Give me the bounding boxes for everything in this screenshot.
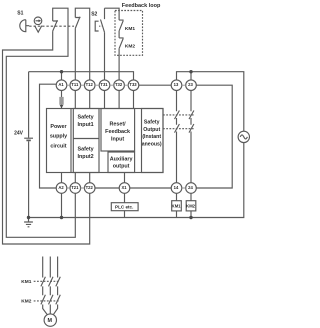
wire: S2 to feedback loop [105,8,120,20]
junction dot ground [27,216,30,219]
label auxiliary output [110,157,133,170]
wire: feedback loop to T32 [118,48,120,80]
contactor contacts KM2 (3-phase) [41,295,60,315]
wire: S2 to T31 [104,32,106,80]
wire: X1 to PLC [124,193,126,203]
terminal 23 [186,80,197,91]
svg-text:T22: T22 [86,185,94,190]
svg-text:Feedback: Feedback [105,129,130,135]
svg-text:KM2: KM2 [186,204,196,209]
wire between KM1 and KM2 contacts [118,31,120,38]
svg-text:T12: T12 [86,82,94,87]
svg-text:Safety: Safety [78,115,94,121]
stub T12 to box [89,90,91,108]
terminal A1 [56,80,67,91]
stub box to A2 [61,173,63,184]
svg-text:24: 24 [188,185,193,190]
battery 24V [24,138,33,140]
ground [24,218,33,227]
contactor contacts KM1 (3-phase) [41,277,60,295]
label safety input2 [78,146,94,160]
battery rail lower [28,141,30,217]
dashed link S2 [99,25,101,27]
junction dot KM2 rail [189,216,192,219]
wire: 23 stub to bus [190,72,192,81]
terminal T12 [84,80,95,91]
svg-text:output: output [113,163,130,169]
label safety output [142,120,162,148]
svg-text:X1: X1 [121,185,127,190]
stub T32 to box [118,90,120,108]
terminal A2 [56,183,67,194]
PLC box [111,203,138,211]
S2 contact [101,8,105,32]
label reset/feedback input [105,122,130,143]
svg-text:T21: T21 [71,185,79,190]
direct opening indicator (circle with arrow) [34,17,42,25]
dashed link KM1 [34,280,60,282]
battery rail upper [28,72,30,138]
stub T31 to box [104,90,106,108]
wire: PLC to rail [124,211,126,218]
svg-text:KM2: KM2 [21,299,31,305]
label safety input1 [78,115,94,129]
auxiliary output block [108,152,135,173]
S1 contact channel B (T11-T12) [75,17,80,29]
svg-text:S1: S1 [17,10,23,16]
wire: coil KM2 to rail [190,211,192,218]
wire: contact B arm to T11 [74,28,76,80]
stub T11 to box [74,90,76,108]
wire: 14 to coil KM1 [176,193,178,201]
terminal T32 [114,80,125,91]
svg-text:Input2: Input2 [78,154,94,160]
pushbutton S1 mushroom head [20,20,29,32]
terminal X1 [119,183,130,194]
terminal T21 [70,183,81,194]
svg-text:KM2: KM2 [125,43,135,49]
contact KM2 (NC) [119,38,124,48]
stub box to T22 [89,173,91,184]
svg-text:Output: Output [143,127,160,133]
terminal T33 [128,80,139,91]
wire: T33 to 13 [139,84,172,86]
terminal T11 [70,80,81,91]
svg-text:aneous): aneous) [142,142,162,148]
bottom 0V rail to AC source [29,143,244,218]
terminal T22 [84,183,95,194]
svg-text:Power: Power [50,124,67,130]
contact KM1 (NC) [119,20,124,31]
terminal 24 [186,183,197,194]
stub T33 to box [133,90,135,108]
svg-text:KM1: KM1 [125,26,135,32]
svg-text:(Instant: (Instant [142,134,161,140]
svg-text:Feedback loop: Feedback loop [122,3,161,9]
svg-text:Safety: Safety [78,146,94,152]
24V supply bus [29,72,134,81]
S1 contact channel A (T21-T22) [53,20,58,31]
contactor coil KM2 [186,201,196,211]
power supply partition [70,109,72,173]
reset/feedback input block [101,109,135,152]
svg-text:Auxiliary: Auxiliary [110,157,133,163]
svg-text:T32: T32 [115,82,123,87]
svg-text:KM1: KM1 [172,204,182,209]
contactor coil KM1 [172,201,182,211]
safety input block [73,109,99,173]
svg-text:PLC etc.: PLC etc. [115,204,133,209]
svg-text:T11: T11 [71,82,79,87]
svg-text:24V: 24V [14,131,24,137]
svg-text:Reset/: Reset/ [110,122,127,128]
terminal 14 [171,183,182,194]
wire: X1 to 14 [130,187,172,189]
feedback loop dashed box [115,11,143,56]
wire: T22 to X1 [95,187,120,189]
wire: contact A arm via left rail A to T22 [3,31,90,244]
pushbutton S2 actuator [95,21,98,31]
safety output contact 23-24 [189,90,194,183]
svg-text:supply: supply [50,134,67,140]
wire: contact B top via loop to T12 [75,8,89,80]
svg-text:KM1: KM1 [21,279,31,285]
stub box to X1 [124,173,126,184]
main unit box [47,109,164,173]
motor phase lines [43,257,58,278]
junction dot 23 bus [189,70,192,73]
label power supply circuit [50,124,68,150]
dashed mechanical links of safety outputs [163,115,194,129]
svg-text:Safety: Safety [144,120,160,126]
junction dot A1 bus [60,70,63,73]
svg-text:circuit: circuit [50,143,66,149]
wire: contact A top via loop and left rail B to T21 [6,8,75,237]
fuse below A1 [59,90,63,108]
wire: 23 to 24 right bypass [196,85,232,188]
svg-text:T31: T31 [100,82,108,87]
svg-text:23: 23 [188,82,193,87]
faint links between adjacent terminals (top row) [67,85,186,188]
stub box to T21 [74,173,76,184]
wire: bus stub to A1 [61,72,63,81]
svg-text:A1: A1 [58,82,64,87]
AC source [238,131,249,142]
wire: 24 to coil KM2 [190,193,192,201]
svg-text:M: M [48,318,53,324]
terminal T31 [99,80,110,91]
motor M [44,314,56,326]
safety output block [142,109,164,173]
wire: coil KM1 to rail [176,211,178,218]
svg-text:T33: T33 [129,82,137,87]
top output bus to AC source [177,72,244,132]
svg-text:Input1: Input1 [78,122,94,128]
terminal 13 [171,80,182,91]
wire: A1-A2 left bypass [40,84,57,188]
svg-text:S2: S2 [91,11,97,17]
junction dot A2 rail [60,216,63,219]
dashed link KM2 [34,300,60,302]
svg-text:14: 14 [174,185,179,190]
wire: A2 to rail [61,193,63,218]
safety output contact 13-14 [175,90,180,183]
actuator V mark [35,26,42,33]
svg-text:13: 13 [174,82,179,87]
svg-text:Input: Input [111,137,124,143]
svg-text:A2: A2 [58,185,64,190]
dashed actuator line S1 [29,25,74,27]
